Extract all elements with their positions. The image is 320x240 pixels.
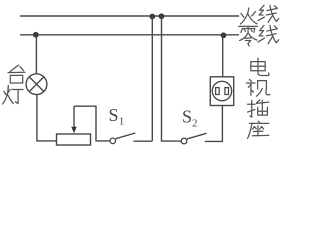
label 视 (socket text, char 2) [246, 79, 270, 96]
socket prong hole right [225, 88, 229, 95]
svg-text:S: S [182, 107, 192, 127]
wire: neutral line (零线) horizontal [20, 34, 239, 36]
svg-text:1: 1 [119, 116, 125, 128]
svg-text:S: S [109, 105, 119, 125]
wire: socket top to neutral dot vertical [222, 35, 224, 77]
label 线 (neutral wire text, char 2) [258, 25, 279, 43]
label 火 (live wire text, char 1) [241, 8, 258, 24]
switch S1 blade (open) [116, 133, 136, 139]
lamp EL 台灯 (circle with X) [26, 74, 47, 95]
socket X1 电视插座 outline box [210, 77, 233, 106]
wire: S1 fixed contact to live drop [134, 140, 153, 142]
switch S2 blade (open) [187, 133, 207, 139]
label 电 (socket text, char 1) [251, 58, 269, 75]
wire: S2 fixed contact right and up to socket [205, 106, 223, 142]
label 灯 (lamp text, char 2) [3, 86, 23, 104]
wire: lamp bottom down and right to rheostat [37, 95, 57, 141]
wire: slider to S1 (up, right, down, right) [74, 106, 110, 141]
junction dot on live wire (left, feeds S1 branch) [149, 14, 155, 20]
wire: neutral to lamp (vertical drop) [35, 35, 37, 74]
label 插 (socket text, char 3) [248, 100, 269, 117]
junction dot on neutral wire (socket branch) [221, 32, 227, 38]
label 台 (lamp text, char 1) [8, 65, 25, 83]
junction dot on neutral wire (lamp branch) [33, 32, 39, 38]
label S1 [109, 105, 125, 128]
junction dot on live wire (right, feeds S2 branch) [159, 13, 165, 19]
socket prong hole left [216, 88, 220, 95]
switch S2 pivot circle [181, 138, 187, 144]
svg-text:2: 2 [192, 118, 198, 130]
wire: live drop 2 (dot to S2) vertical then right [162, 16, 182, 141]
label 零 (neutral wire text, char 1) [239, 26, 258, 46]
label 座 (socket text, char 4) [248, 121, 269, 138]
label 线 (live wire text, char 2) [258, 5, 279, 22]
switch S1 pivot circle [110, 138, 116, 144]
wire: live drop 1 (dot to S1) vertical [151, 17, 153, 142]
rheostat slider arrow [71, 106, 76, 133]
label S2 [182, 107, 198, 130]
rheostat R (dimmer) body [57, 134, 91, 145]
wire: live line (火线) horizontal [20, 15, 239, 17]
socket face circle [212, 81, 231, 100]
